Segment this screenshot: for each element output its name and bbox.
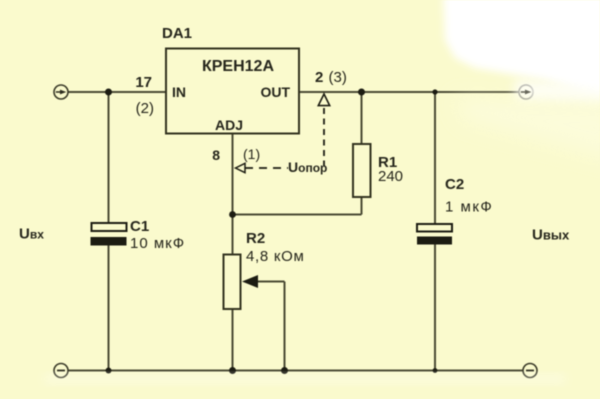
svg-text:DA1: DA1: [162, 25, 192, 42]
svg-text:IN: IN: [172, 84, 186, 100]
svg-text:(1): (1): [243, 146, 260, 162]
svg-text:2 (3): 2 (3): [315, 69, 347, 86]
svg-text:Uвых: Uвых: [532, 227, 570, 244]
svg-text:OUT: OUT: [260, 84, 290, 100]
svg-text:17: 17: [135, 74, 152, 91]
svg-text:10 мкФ: 10 мкФ: [130, 235, 185, 252]
svg-text:КРЕН12А: КРЕН12А: [202, 58, 274, 75]
svg-text:1 мкФ: 1 мкФ: [445, 199, 493, 216]
svg-text:C2: C2: [445, 176, 464, 193]
svg-text:Uопор: Uопор: [288, 159, 327, 175]
svg-text:Uвх: Uвх: [19, 226, 44, 243]
svg-text:(2): (2): [136, 100, 154, 117]
svg-text:C1: C1: [130, 218, 149, 235]
svg-text:8: 8: [212, 147, 220, 163]
svg-text:R2: R2: [246, 230, 265, 247]
svg-text:240: 240: [378, 168, 403, 185]
svg-text:ADJ: ADJ: [215, 117, 243, 133]
svg-text:4,8 кОм: 4,8 кОм: [246, 248, 304, 265]
